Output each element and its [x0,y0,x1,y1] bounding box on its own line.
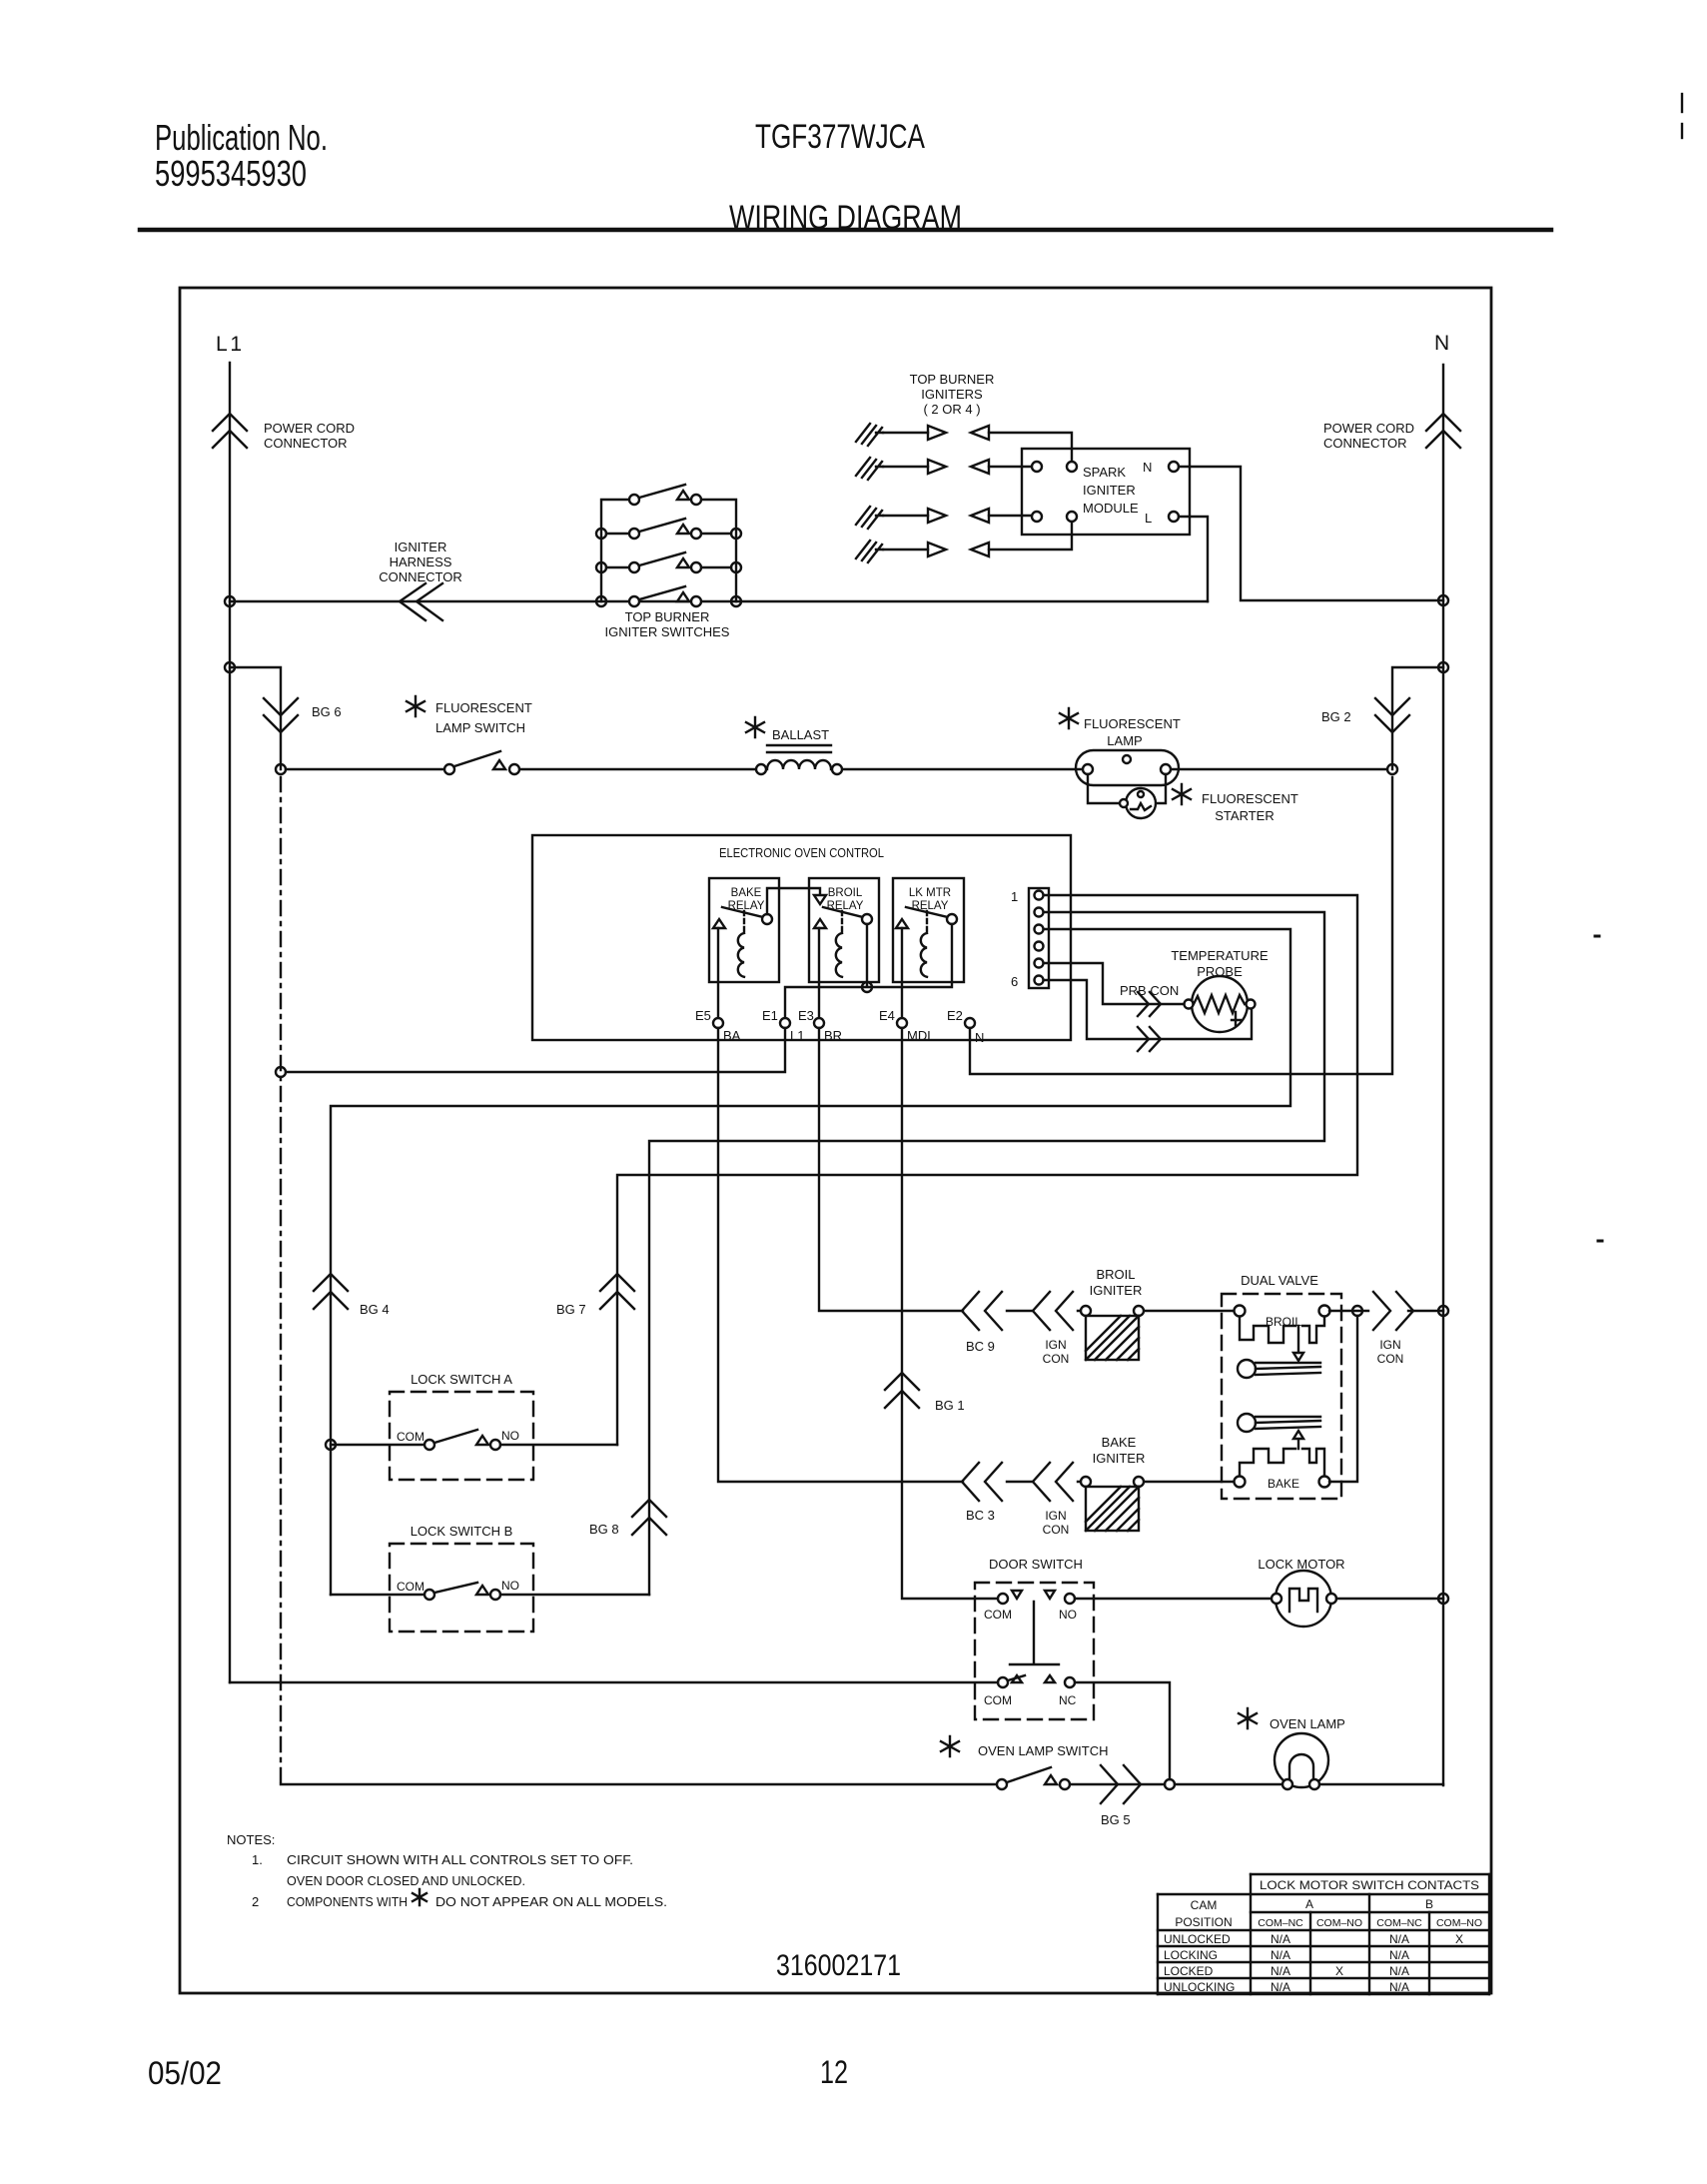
igniter row 3 ground [856,507,883,529]
svg-text:LAMP: LAMP [1107,733,1142,748]
svg-text:NO: NO [1059,1608,1077,1622]
wire broil contact to E3 [818,928,820,1018]
svg-text:6: 6 [1011,974,1018,989]
lk mtr relay coil [921,933,927,977]
junction valve output bus [1352,1306,1362,1316]
wire igniter row2 to module [989,466,1032,468]
wire N rail vertical [1442,365,1444,1785]
wire oven lamp to N rail [1319,1783,1443,1785]
svg-text:IGNITER: IGNITER [1083,483,1136,498]
junction E1 on L1 rail [276,1067,286,1077]
svg-text:BG 4: BG 4 [360,1302,390,1317]
svg-text:LOCKED: LOCKED [1164,1964,1214,1978]
switch row 4 on main line [629,596,639,606]
svg-text:LOCK SWITCH B: LOCK SWITCH B [411,1524,513,1539]
door switch box [975,1583,1094,1719]
svg-text:IGNITER SWITCHES: IGNITER SWITCHES [605,624,730,639]
wire lkmtr contact to E4 [901,928,903,1018]
door switch actuator link [1010,1602,1059,1664]
wire E3 broil line [819,1028,1235,1311]
svg-text:X: X [1335,1964,1343,1978]
connector IGN CON output [1373,1292,1413,1330]
asterisk oven lamp switch [941,1736,959,1756]
connector BG 7 [600,1274,634,1309]
svg-text:SPARK: SPARK [1083,465,1126,480]
svg-text:NO: NO [501,1429,519,1443]
igniter row 4 arrows [883,548,928,550]
svg-text:LOCK MOTOR: LOCK MOTOR [1258,1557,1344,1572]
svg-text:CONNECTOR: CONNECTOR [379,569,462,584]
wire broil+lkmtr pivots to E1 [785,924,952,1018]
svg-text:CONNECTOR: CONNECTOR [1323,436,1407,451]
svg-text:IGNITERS: IGNITERS [921,387,983,402]
svg-text:IGN: IGN [1379,1338,1400,1352]
connector IGN CON bake left [1033,1463,1073,1501]
svg-text:BA: BA [723,1028,741,1043]
svg-text:N/A: N/A [1271,1964,1290,1978]
svg-text:UNLOCKED: UNLOCKED [1164,1932,1231,1946]
svg-text:1: 1 [1011,889,1018,904]
junction N pin return on N rail [1438,595,1448,605]
bake valve operator [1240,1449,1324,1476]
pin 5 [1035,959,1044,968]
lk mtr relay contact [896,919,908,928]
connector IGN CON broil left [1033,1292,1073,1330]
wire lock switch A NO to BG7 [500,1444,617,1446]
connector BC 9 [962,1292,1002,1330]
svg-text:NOTES:: NOTES: [227,1832,275,1847]
svg-text:LK MTR: LK MTR [909,887,951,899]
svg-text:UNLOCKING: UNLOCKING [1164,1980,1235,1994]
connector BC 3 [962,1463,1002,1501]
wire pin5 to probe [1044,963,1183,1004]
bake valve plunger [1238,1414,1256,1432]
svg-text:BAKE: BAKE [1102,1435,1137,1450]
lock switch A box [390,1392,533,1480]
svg-text:BC 3: BC 3 [966,1508,995,1523]
fluorescent lamp FL1 [1076,750,1179,785]
svg-text:BG 7: BG 7 [556,1302,586,1317]
dual valve broil terminals [1235,1306,1246,1317]
svg-text:N/A: N/A [1271,1932,1290,1946]
pin 2 [1035,908,1044,917]
svg-text:ELECTRONIC OVEN CONTROL: ELECTRONIC OVEN CONTROL [719,845,884,860]
top burner igniter switches block left rail [601,500,629,601]
svg-text:E3: E3 [798,1008,814,1023]
pin 1 [1035,891,1044,900]
asterisk oven lamp [1239,1708,1257,1728]
connector BG 6 [264,698,298,732]
asterisk fluorescent starter [1173,784,1191,804]
wire BG4 to lock switch A COM [331,1444,425,1446]
terminal E5 / BA [713,1018,723,1028]
svg-text:N/A: N/A [1389,1932,1409,1946]
svg-text:L1: L1 [790,1028,804,1043]
connector PRB CON lower [1138,1027,1161,1051]
EOC pin connector strip [1029,888,1049,988]
svg-text:COM–NC: COM–NC [1258,1917,1303,1929]
wire bake contact to E5 [717,928,719,1018]
bake relay contact [713,919,725,928]
wire switch to BG5 [1070,1783,1165,1785]
svg-text:POWER CORD: POWER CORD [1323,421,1414,436]
pin 6 [1035,976,1044,985]
asterisk ballast [746,717,764,737]
junction BG4 at lock switch A [326,1440,336,1450]
lock motor switch contacts table frame [1158,1874,1489,1994]
connector BG 8 [632,1500,666,1535]
svg-text:BAKE: BAKE [731,887,762,899]
igniter row 2 arrows [883,466,928,468]
svg-text:E4: E4 [879,1008,895,1023]
wire igniter row4 to module [989,522,1072,549]
broil valve plunger [1238,1360,1256,1378]
svg-text:COM: COM [397,1580,425,1594]
svg-text:05/02: 05/02 [148,2055,222,2091]
wire L1 rail vertical [229,363,231,1682]
bake igniter line from E5 [718,1028,1235,1482]
spark igniter module U1 [1022,449,1190,535]
svg-text:DOOR SWITCH: DOOR SWITCH [989,1557,1083,1572]
svg-text:CIRCUIT SHOWN WITH ALL CONTROL: CIRCUIT SHOWN WITH ALL CONTROLS SET TO O… [287,1852,633,1867]
igniter row 1 arrows [883,432,928,434]
svg-text:TEMPERATURE: TEMPERATURE [1171,948,1269,963]
junction lamp line [1165,1779,1175,1789]
svg-text:COM: COM [984,1693,1012,1707]
wire pin1 to BG7 [617,895,1357,1445]
igniter row 3 arrows [883,515,928,517]
wire door switch NC to lamp line [1075,1682,1170,1779]
broil relay coil [836,933,842,977]
wire E1 to L1 dash rail [286,1028,785,1072]
wire lock motor to N rail [1336,1598,1443,1600]
svg-text:N: N [975,1030,984,1045]
pin 4 [1035,942,1044,951]
svg-text:OVEN LAMP: OVEN LAMP [1270,1716,1345,1731]
svg-text:CAM: CAM [1191,1898,1218,1912]
svg-text:1.: 1. [252,1852,263,1867]
terminal E1 / L1 [780,1018,790,1028]
terminal E3 / BR [814,1018,824,1028]
svg-text:CON: CON [1043,1523,1070,1537]
svg-text:COM: COM [984,1608,1012,1622]
svg-text:IGNITER: IGNITER [1093,1451,1146,1466]
dual valve box [1222,1294,1341,1499]
svg-text:2: 2 [252,1894,259,1909]
connector BG 2 [1375,698,1409,732]
svg-text:CON: CON [1377,1352,1404,1366]
junction valve output on N rail [1438,1306,1448,1316]
svg-text:BG 5: BG 5 [1101,1812,1131,1827]
door switch bottom COM contact [998,1677,1008,1687]
svg-text:LOCK MOTOR SWITCH CONTACTS: LOCK MOTOR SWITCH CONTACTS [1260,1878,1479,1892]
page border frame [180,288,1491,1993]
wire lamp to starter right [1157,774,1166,803]
svg-text:L1: L1 [216,333,242,356]
bake relay coil [738,933,744,977]
junction broil pivot bus [862,982,872,992]
svg-text:E1: E1 [762,1008,778,1023]
svg-text:BROIL: BROIL [828,887,863,899]
svg-text:CON: CON [1043,1352,1070,1366]
power cord connector (N) [1426,414,1460,448]
power cord connector (L1) [213,414,247,448]
svg-text:DO NOT APPEAR ON ALL MODELS.: DO NOT APPEAR ON ALL MODELS. [435,1894,667,1909]
svg-text:IGN: IGN [1045,1338,1066,1352]
igniter row 4 ground [856,541,883,562]
terminal E2 / N [965,1018,975,1028]
wire E4 to door switch COM [902,1028,998,1599]
asterisk fluorescent lamp switch [407,696,425,716]
svg-text:POWER CORD: POWER CORD [264,421,355,436]
svg-text:A: A [1305,1897,1313,1911]
connector BG 4 [314,1274,348,1309]
svg-text:OVEN DOOR CLOSED AND UNLOCKED.: OVEN DOOR CLOSED AND UNLOCKED. [287,1873,525,1888]
wire igniter main line [230,600,1208,602]
junction fluorescent line start [276,764,286,774]
wire fluorescent lamp line [286,768,1387,770]
broil valve operator [1240,1317,1324,1343]
wire lamp to starter left [1088,774,1121,803]
svg-text:Publication No.: Publication No. [155,117,328,158]
svg-text:N: N [1143,460,1152,475]
wire module L pin to igniter line [1179,517,1208,601]
lock switch B box [390,1544,533,1632]
wire broil valve output [1329,1310,1443,1312]
svg-text:LOCK SWITCH A: LOCK SWITCH A [411,1372,512,1387]
svg-text:COM: COM [397,1430,425,1444]
svg-text:FLUORESCENT: FLUORESCENT [435,700,532,715]
svg-text:COMPONENTS WITH: COMPONENTS WITH [287,1894,408,1909]
bake relay K1 box [709,878,779,982]
pin 3 [1035,925,1044,934]
connector BG 1 [885,1373,919,1408]
broil relay contact [814,919,826,928]
svg-text:IGN: IGN [1045,1509,1066,1523]
wire L1 rail to door switch bottom COM [230,1681,998,1683]
svg-text:316002171: 316002171 [776,1949,901,1982]
top burner igniter switches block right rail [701,500,736,601]
terminal E4 / MDL [897,1018,907,1028]
wire door switch NO to lock motor [1075,1598,1275,1600]
wire L1 dash-dot rail lower [280,777,282,1784]
svg-text:HARNESS: HARNESS [390,554,452,569]
svg-text:IGNITER: IGNITER [1090,1283,1143,1298]
svg-text:5995345930: 5995345930 [155,153,307,194]
door switch top COM contact [998,1594,1008,1604]
igniter harness connector [400,583,442,620]
wire to oven lamp [1175,1783,1282,1785]
lock switch A contacts [425,1440,434,1450]
svg-text:BC 9: BC 9 [966,1339,995,1354]
dual valve bake terminals [1235,1477,1246,1488]
broil relay K2 box [809,878,879,982]
svg-text:N/A: N/A [1271,1980,1290,1994]
svg-text:N/A: N/A [1389,1948,1409,1962]
switch row 3 [606,566,731,568]
svg-text:DUAL VALVE: DUAL VALVE [1241,1273,1318,1288]
svg-text:BG 6: BG 6 [312,704,342,719]
svg-text:COM–NC: COM–NC [1376,1917,1422,1929]
igniter row 2 ground [856,458,883,480]
connector BG 5 [1101,1765,1141,1803]
wire L1 to BG6 branch [230,667,281,769]
svg-text:B: B [1425,1897,1433,1911]
junction BG2 on N rail [1438,662,1448,672]
wire valve bus to bake output [1329,1316,1357,1482]
svg-text:IGNITER: IGNITER [395,540,447,554]
svg-text:BROIL: BROIL [1096,1267,1135,1282]
switch row 1 [629,495,639,505]
svg-text:BALLAST: BALLAST [772,727,829,742]
junction lamp line to BG2 [1387,764,1397,774]
module pins [1032,462,1042,472]
svg-text:N/A: N/A [1271,1948,1290,1962]
svg-text:CONNECTOR: CONNECTOR [264,436,348,451]
svg-text:N/A: N/A [1389,1964,1409,1978]
igniter row 1 ground [856,424,883,446]
svg-text:COM–NO: COM–NO [1316,1917,1362,1929]
lock switch B contacts [425,1590,434,1600]
svg-text:OVEN LAMP SWITCH: OVEN LAMP SWITCH [978,1743,1109,1758]
svg-text:FLUORESCENT: FLUORESCENT [1202,791,1298,806]
svg-text:LOCKING: LOCKING [1164,1948,1218,1962]
lk mtr relay K3 box [893,878,964,982]
wire pin3 to BG4 [331,929,1290,1595]
svg-text:TOP BURNER: TOP BURNER [910,372,995,387]
connector PRB CON upper [1138,992,1161,1016]
fluorescent lamp switch S1 [444,764,454,774]
svg-text:( 2 OR 4 ): ( 2 OR 4 ) [923,402,980,417]
wire bake pivot to broil NC contact [767,888,820,914]
svg-text:X: X [1455,1932,1463,1946]
svg-text:MODULE: MODULE [1083,501,1139,516]
broil relay NC triangle [814,895,826,904]
wire pin2 to BG8 [649,912,1324,1595]
svg-text:12: 12 [820,2054,848,2090]
svg-text:BG 1: BG 1 [935,1398,965,1413]
svg-text:STARTER: STARTER [1215,808,1274,823]
svg-text:TGF377WJCA: TGF377WJCA [755,118,925,156]
oven lamp switch S2 [997,1779,1007,1789]
svg-text:L: L [1145,511,1152,526]
wire L1 rail to oven lamp switch [281,1783,997,1785]
junction lock motor on N rail [1438,1594,1448,1604]
wire BG4 rail to lock switch B COM [331,1594,425,1596]
electronic oven control box [532,835,1071,1040]
svg-text:NO: NO [501,1579,519,1593]
svg-text:TOP BURNER: TOP BURNER [625,609,710,624]
fluorescent starter [1126,788,1156,818]
asterisk fluorescent lamp [1060,708,1078,728]
oven lamp LP1 [1275,1733,1328,1787]
wire module N pin to N rail [1179,467,1443,600]
switch row 2 [606,533,731,535]
svg-text:E5: E5 [695,1008,711,1023]
svg-text:BG 8: BG 8 [589,1522,619,1537]
wire BG2 branch to N rail [1392,667,1443,769]
svg-text:N: N [1434,332,1449,355]
wire lock switch B NO to BG8 [500,1594,649,1596]
svg-text:POSITION: POSITION [1175,1915,1232,1929]
svg-text:BR: BR [824,1028,842,1043]
junction L1-igniter line [225,596,235,606]
stray scan marks right margin [1681,94,1683,112]
wire igniter row3 to module [989,515,1032,517]
ballast T1 [756,764,766,774]
svg-text:N/A: N/A [1389,1980,1409,1994]
svg-text:PRB CON: PRB CON [1120,983,1179,998]
wire igniter row1 to module [989,433,1072,462]
svg-text:COM–NO: COM–NO [1436,1917,1482,1929]
header rule [140,228,1551,233]
wire E2 to BG2 rail [970,777,1392,1074]
wire pin6 to probe return [1044,980,1252,1039]
svg-text:BG 2: BG 2 [1321,709,1351,724]
svg-text:FLUORESCENT: FLUORESCENT [1084,716,1181,731]
svg-text:BAKE: BAKE [1268,1477,1299,1491]
svg-text:E2: E2 [947,1008,963,1023]
svg-text:LAMP SWITCH: LAMP SWITCH [435,720,525,735]
svg-text:NC: NC [1059,1693,1077,1707]
junction on L1 rail at BG6 [225,662,235,672]
svg-text:MDL: MDL [907,1028,934,1043]
